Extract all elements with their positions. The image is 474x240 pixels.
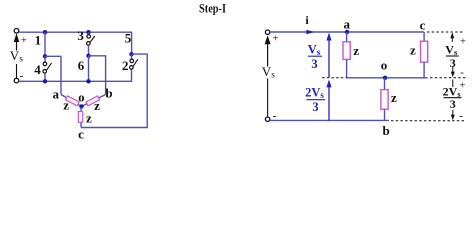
node dot bottom rail left (43, 79, 47, 83)
impedance z phase c (78, 111, 82, 122)
svg-text:o: o (381, 58, 388, 73)
svg-text:a: a (53, 86, 60, 101)
wire c return path (81, 54, 147, 127)
wire bottom rail (right) (270, 119, 389, 121)
svg-text:b: b (105, 86, 112, 101)
svg-text:-: - (459, 111, 463, 122)
measurement column 2Vs/3 (right edge) (451, 80, 455, 121)
svg-text:3: 3 (77, 28, 84, 43)
svg-text:z: z (410, 42, 416, 57)
source VS top terminal (14, 29, 19, 34)
node dot top rail left (43, 30, 47, 34)
current arrow i (306, 30, 314, 34)
wire branch to a (45, 56, 61, 94)
node o dot (right) (383, 76, 387, 80)
measurement arrow 2Vs/3 (middle) (326, 80, 331, 121)
wire top rail (right) (270, 31, 424, 33)
svg-text:o: o (78, 91, 84, 105)
svg-text:z: z (353, 43, 359, 58)
svg-text:c: c (78, 127, 84, 142)
switch 2 open (130, 54, 138, 69)
source VS arrow (right) (265, 35, 271, 66)
node B junction dot (86, 54, 90, 58)
label Vs/3 (middle) (308, 43, 322, 71)
svg-text:+: + (272, 32, 278, 44)
switch 6 closed wire (88, 56, 90, 82)
svg-text:+: + (21, 35, 27, 47)
svg-text:Step-I: Step-I (199, 1, 226, 16)
svg-text:-: - (460, 68, 464, 79)
label 2Vs/3 (right) (443, 85, 462, 112)
svg-text:3: 3 (450, 56, 456, 70)
wire bottom rail (19, 69, 132, 81)
svg-text:5: 5 (125, 31, 132, 46)
source VS bottom terminal (14, 78, 19, 83)
impedance z phase a (66, 96, 80, 106)
svg-text:z: z (63, 98, 69, 113)
impedance z branch a-o (343, 32, 350, 78)
wire o rail solid (347, 77, 428, 79)
svg-text:+: + (460, 36, 466, 47)
switch 1 closed wire (44, 32, 46, 56)
switch 4 open (43, 56, 52, 81)
dashed o level line left (322, 77, 347, 79)
dashed line o level right (430, 77, 466, 79)
svg-text:a: a (344, 16, 351, 31)
source VS arrow (14, 33, 20, 50)
svg-text:6: 6 (78, 58, 85, 73)
svg-text:3: 3 (450, 97, 456, 111)
dashed line top right from c (427, 31, 464, 33)
svg-text:c: c (420, 17, 426, 32)
source VS bottom terminal (right) (265, 117, 269, 121)
wire top rail (19, 32, 132, 54)
svg-text:1: 1 (35, 32, 42, 47)
node C junction dot (129, 52, 133, 56)
measurement arrow Vs/3 (middle) (326, 33, 331, 78)
impedance z branch c-o (421, 32, 428, 78)
svg-text:z: z (94, 98, 100, 113)
svg-text:4: 4 (34, 62, 41, 77)
dashed line bottom right from b (391, 120, 466, 122)
node dot bottom rail mid (86, 79, 90, 83)
node o center dot (79, 104, 83, 108)
node dot top rail mid (86, 30, 90, 34)
source lead wire (right) (267, 79, 269, 117)
measurement column Vs/3 (right edge) (450, 33, 455, 78)
source lead wire (16, 64, 18, 78)
label 2Vs/3 (middle) (305, 86, 325, 115)
svg-text:-: - (20, 70, 24, 82)
wire branch to b (89, 56, 106, 95)
svg-text:z: z (391, 90, 397, 105)
wire phase a diagonal (61, 95, 81, 107)
wire phase b diagonal (82, 95, 106, 107)
node a dot (right) (345, 30, 349, 34)
impedance z phase b (86, 96, 100, 106)
svg-text:3: 3 (311, 57, 317, 71)
switch 3 open (87, 32, 95, 56)
wire phase c vertical (80, 107, 82, 127)
label Vs/3 (right) (445, 43, 458, 71)
svg-text:z: z (86, 110, 92, 125)
svg-text:2: 2 (122, 58, 129, 73)
svg-text:3: 3 (312, 100, 318, 114)
node A junction dot (43, 54, 47, 58)
impedance z branch o-b (381, 78, 388, 121)
svg-text:b: b (382, 123, 389, 138)
source VS top terminal (right) (265, 30, 269, 34)
